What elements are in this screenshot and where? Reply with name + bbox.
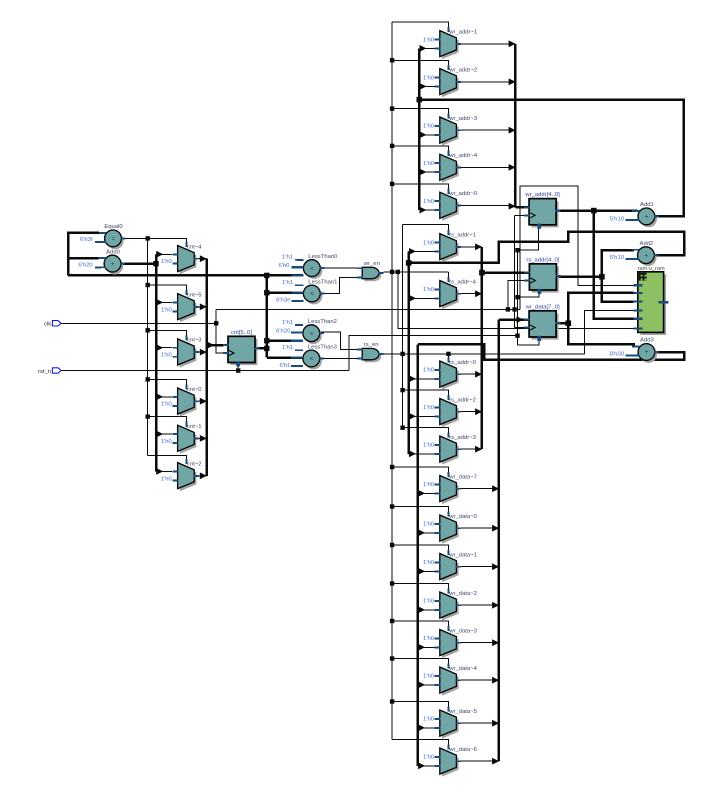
wire rs_addr Q to Add2 <box>602 250 634 276</box>
svg-text:wr_addr~3: wr_addr~3 <box>448 116 478 122</box>
mux wr_data~1 <box>423 550 477 582</box>
wire Add0 output <box>121 262 156 265</box>
wire wr_addr mux output <box>461 43 515 45</box>
wire rst to wr_data register <box>518 341 540 345</box>
junction rs_addr D <box>479 270 485 276</box>
wire rs_addr mux output <box>461 293 482 295</box>
wire wr_data select tap <box>392 621 448 630</box>
wire feed to wr_addr mux <box>419 134 435 136</box>
wire wr_addr select tap <box>392 146 448 154</box>
wire cnt mux output <box>199 400 207 402</box>
wire feed to wr_addr mux <box>419 47 435 49</box>
mux wr_addr~4 <box>423 151 478 183</box>
wire wr_addr output bus <box>514 44 517 208</box>
svg-text:1'h0: 1'h0 <box>423 717 435 723</box>
svg-text:1'h0: 1'h0 <box>423 636 435 642</box>
wire wr_addr~1 select <box>392 22 448 31</box>
wire feed to rs_addr mux <box>409 250 435 252</box>
wire data to ram <box>568 293 633 323</box>
svg-text:clk: clk <box>44 322 51 328</box>
mux cnt~0 <box>161 384 202 416</box>
wire wr_addr register D input <box>515 206 529 209</box>
wire wr_data select tap <box>392 507 448 516</box>
svg-text:rs_addr~0: rs_addr~0 <box>449 360 476 366</box>
gate rs_en <box>357 342 383 362</box>
svg-text:1'h0: 1'h0 <box>161 439 173 445</box>
wire wr_data mux output <box>461 527 499 529</box>
register wr_addr[4..0] <box>524 192 561 229</box>
wire wr_data mux output <box>461 604 499 606</box>
junction select trunk <box>146 236 150 240</box>
mux cnt~1 <box>161 422 202 454</box>
wire feed to wr_data mux <box>418 727 435 729</box>
svg-text:ram:u_ram: ram:u_ram <box>638 266 665 272</box>
svg-text:+: + <box>645 349 649 356</box>
svg-text:wr_data~1: wr_data~1 <box>448 552 477 558</box>
svg-text:LessThan1: LessThan1 <box>308 279 337 285</box>
ram output q <box>659 301 669 303</box>
mux wr_addr~1 <box>423 27 477 59</box>
wire Add2 feedback bus <box>407 251 410 453</box>
wire feed to wr_data mux <box>418 609 435 611</box>
mux cnt~2 <box>161 459 202 491</box>
wire rs_addr output bus <box>481 247 484 449</box>
svg-text:1'h0: 1'h0 <box>423 522 435 528</box>
wire wr_en output <box>383 271 448 273</box>
wire wr_data mux output <box>461 566 499 568</box>
register cnt[5..0] <box>223 330 260 367</box>
svg-text:1'h1: 1'h1 <box>282 320 293 326</box>
svg-text:=: = <box>111 236 115 243</box>
wire rs_addr register D input <box>482 271 530 274</box>
operator LessThan0 <box>291 254 338 279</box>
wire Add0 input <box>68 257 99 260</box>
svg-text:rst_n: rst_n <box>38 369 51 375</box>
mux rs_addr~1 <box>423 230 476 262</box>
svg-text:LessThan2: LessThan2 <box>308 319 337 325</box>
wire cnt feedback loop left <box>68 233 99 276</box>
wire cnt register D input <box>207 344 224 347</box>
svg-text:1'h1: 1'h1 <box>282 280 293 286</box>
wire Equal0 output to cnt mux selects <box>122 238 187 245</box>
wire feed to cnt mux <box>156 433 172 435</box>
wire cnt Q to LessThan3 <box>267 356 303 359</box>
mux wr_data~2 <box>423 588 477 620</box>
svg-text:wr_addr[4..0]: wr_addr[4..0] <box>524 192 560 198</box>
wire cnt output bus <box>205 259 208 476</box>
wire cnt select tap <box>148 285 187 294</box>
wire cnt Q bus vertical <box>266 275 269 357</box>
svg-text:1'h0: 1'h0 <box>423 161 435 167</box>
svg-text:cnt[5..0]: cnt[5..0] <box>231 330 252 336</box>
svg-text:rs_addr~2: rs_addr~2 <box>449 397 476 403</box>
wire rst to rs_addr register <box>518 294 540 298</box>
svg-text:6'h3f: 6'h3f <box>80 237 93 243</box>
mux rs_addr~0 <box>423 357 477 389</box>
wire wr_data select tap <box>392 702 448 711</box>
svg-text:rs_addr~1: rs_addr~1 <box>449 232 476 238</box>
wire rdaddress to ram <box>602 277 634 302</box>
wire cnt select tap <box>148 379 187 388</box>
svg-text:wr_data~7: wr_data~7 <box>448 474 477 480</box>
svg-text:cnt~2: cnt~2 <box>187 461 202 467</box>
wire wr_addr mux output <box>461 81 515 83</box>
operator Add0 <box>98 249 125 274</box>
junction rst cnt <box>236 368 240 372</box>
ram block ram:u_ram <box>633 266 668 335</box>
input port rst_n <box>38 368 61 375</box>
wire cnt Q rail <box>68 274 303 277</box>
junction rs_addr Q <box>599 274 605 280</box>
mux wr_addr~0 <box>423 189 478 221</box>
mux cnt~3 <box>161 335 202 367</box>
mux rs_addr~2 <box>423 395 476 427</box>
wire cnt register Q <box>255 347 266 350</box>
wire wr_data output bus <box>498 320 501 762</box>
wire cnt mux output <box>199 351 207 353</box>
svg-text:wr_en: wr_en <box>363 261 380 267</box>
wire rs_addr mux output <box>461 246 482 248</box>
wire Add1 feedback bus <box>418 48 421 210</box>
gate wr_en <box>357 261 383 281</box>
junction Add0 bus <box>153 261 158 266</box>
svg-text:cnt~5: cnt~5 <box>187 292 202 298</box>
svg-text:Equal0: Equal0 <box>104 224 123 230</box>
wire clk horizontal trunk <box>216 308 520 310</box>
svg-text:1'h0: 1'h0 <box>161 307 173 313</box>
wire feed to cnt mux <box>156 301 172 303</box>
svg-text:1'h0: 1'h0 <box>423 599 435 605</box>
svg-text:wr_addr~4: wr_addr~4 <box>448 153 478 159</box>
mux wr_addr~2 <box>423 65 477 97</box>
wire rs_en output / rden <box>383 353 584 355</box>
wire rst jog <box>349 336 517 371</box>
svg-text:rs_addr[4..0]: rs_addr[4..0] <box>526 257 559 263</box>
wire wr_addr Q to Add1 <box>556 209 636 212</box>
svg-text:Add1: Add1 <box>640 202 654 208</box>
wire rst to wr_addr register <box>518 229 539 251</box>
wire feed to wr_data mux <box>418 570 435 572</box>
wire Add3 feedback loop <box>418 344 684 359</box>
svg-text:1'h1: 1'h1 <box>282 345 293 351</box>
wire cnt mux output <box>199 475 207 477</box>
operator Add1 <box>632 202 659 227</box>
wire rst vertical trunk <box>517 250 519 345</box>
svg-text:6'h0: 6'h0 <box>278 263 290 269</box>
wire wr_data mux output <box>461 722 499 724</box>
wire clk to cnt register <box>216 309 223 353</box>
operator LessThan2 <box>291 319 337 344</box>
wire wr_en select trunk <box>391 22 393 739</box>
wire Add3 feedback bus <box>417 344 420 766</box>
register wr_data[7..0] <box>524 304 561 341</box>
wire clk to ram <box>520 186 633 309</box>
wire wr_data select tap <box>392 545 448 554</box>
svg-text:rs_en: rs_en <box>364 342 379 348</box>
svg-text:1'h0: 1'h0 <box>423 560 435 566</box>
svg-text:cnt~0: cnt~0 <box>187 387 202 393</box>
wire cnt select tap <box>148 417 187 426</box>
svg-text:<: < <box>310 356 314 363</box>
mux wr_data~4 <box>423 663 478 695</box>
svg-text:wr_data~6: wr_data~6 <box>448 747 477 753</box>
wire feed to wr_addr mux <box>419 171 435 173</box>
wire wr_data select tap <box>392 467 448 476</box>
svg-text:<: < <box>310 330 314 337</box>
wire LessThan1 to wr_en <box>320 277 357 293</box>
svg-text:5'h10: 5'h10 <box>610 255 625 261</box>
svg-text:5'h10: 5'h10 <box>610 216 625 222</box>
wire wr_addr select tap <box>392 60 448 68</box>
wire wr_data select tap <box>392 584 448 593</box>
wire feed to wr_addr mux <box>419 209 435 211</box>
wire clk rail <box>61 322 216 324</box>
svg-text:rs_addr~3: rs_addr~3 <box>449 435 476 441</box>
wire wr_addr mux output <box>461 129 515 131</box>
svg-text:cnt~4: cnt~4 <box>187 244 202 250</box>
wire rs_addr select tap <box>403 428 449 436</box>
wire cnt Q to LessThan2 <box>267 339 303 342</box>
wire feed to wr_addr mux <box>419 85 435 87</box>
wire feed to rs_addr mux <box>409 378 435 380</box>
wire feed to wr_data mux <box>418 646 435 648</box>
svg-text:Add2: Add2 <box>640 241 654 247</box>
wire feed to cnt mux <box>156 396 172 398</box>
svg-text:+: + <box>111 261 115 268</box>
svg-text:wr_data~4: wr_data~4 <box>448 666 477 672</box>
svg-text:Add0: Add0 <box>106 249 120 255</box>
junction clk <box>214 321 218 325</box>
wire rst to cnt register <box>237 366 239 371</box>
input port clk <box>44 321 61 328</box>
wire Add2 feedback loop <box>409 232 685 263</box>
svg-text:1'h0: 1'h0 <box>161 476 173 482</box>
wire feed to rs_addr mux <box>409 415 435 417</box>
svg-text:1'h1: 1'h1 <box>282 255 293 261</box>
wire wr_data Q <box>556 322 568 325</box>
wire wr_data mux output <box>461 488 499 490</box>
wire wr_addr select tap <box>392 184 448 192</box>
junction Add2 bus <box>406 260 412 266</box>
mux wr_data~3 <box>423 626 478 658</box>
svg-text:1'h0: 1'h0 <box>161 353 173 359</box>
svg-text:wr_data~0: wr_data~0 <box>448 514 477 520</box>
junction rst trunk <box>515 334 519 338</box>
mux wr_data~7 <box>423 472 477 504</box>
wire clk to wr_addr and wr_data registers <box>514 215 516 327</box>
wire wr_addr~0 output <box>461 204 514 206</box>
svg-text:1'h0: 1'h0 <box>423 199 435 205</box>
mux wr_addr~3 <box>423 113 478 145</box>
wire feed to wr_data mux <box>418 532 435 534</box>
wire rs_addr select tap <box>403 390 449 398</box>
svg-text:6'h20: 6'h20 <box>276 328 291 334</box>
mux cnt~4 <box>161 242 202 274</box>
svg-text:1'h0: 1'h0 <box>423 287 435 293</box>
junction cnt Q rail <box>264 273 269 278</box>
svg-text:6'h1: 6'h1 <box>279 363 290 369</box>
svg-text:8'h00: 8'h00 <box>610 352 625 358</box>
operator LessThan3 <box>291 344 338 369</box>
svg-text:1'h0: 1'h0 <box>423 755 435 761</box>
wire rs_addr~4 select <box>448 272 450 281</box>
wire feed to cnt mux <box>156 347 172 349</box>
wire wr_data register D input <box>499 318 529 321</box>
svg-text:wr_addr~2: wr_addr~2 <box>448 67 477 73</box>
mux wr_data~0 <box>423 511 478 543</box>
wire cnt mux output <box>199 306 207 308</box>
wire cnt Q to LessThan1 <box>267 291 303 294</box>
wire wraddress to ram <box>594 211 634 319</box>
wire LessThan0 to wr_en <box>320 267 357 269</box>
wire LessThan2 to rs_en <box>320 332 358 350</box>
svg-text:+: + <box>644 252 648 259</box>
wire rs_en select trunk <box>402 224 404 427</box>
wire wr_addr mux output <box>461 166 515 168</box>
svg-text:1'h0: 1'h0 <box>161 402 173 408</box>
svg-text:<: < <box>310 265 314 272</box>
wire rst_n rail <box>61 370 349 372</box>
wire wr_data select tap <box>392 740 448 749</box>
wire wr_data select tap <box>392 659 448 668</box>
wire cnt mux output <box>199 258 207 260</box>
mux wr_data~5 <box>423 706 478 738</box>
operator Add2 <box>632 241 659 266</box>
wire feed to cnt mux <box>156 253 172 255</box>
svg-text:wr_data~5: wr_data~5 <box>448 709 477 715</box>
wire Add1 feedback loop <box>419 100 684 217</box>
mux cnt~5 <box>161 290 202 322</box>
junction Add1 bus <box>417 97 423 103</box>
svg-text:1'h0: 1'h0 <box>423 75 435 81</box>
wire wr_data mux output <box>461 642 499 644</box>
wire feed to rs_addr mux <box>409 453 435 455</box>
wire cnt select tap <box>148 456 187 463</box>
wire rs_addr mux output <box>461 373 482 375</box>
wire wr_data Q to Add3 <box>568 323 634 346</box>
svg-text:wr_data~2: wr_data~2 <box>448 591 477 597</box>
svg-text:cnt~1: cnt~1 <box>187 424 202 430</box>
svg-text:wr_data~3: wr_data~3 <box>448 628 477 634</box>
svg-text:1'h0: 1'h0 <box>423 240 435 246</box>
wire feed to wr_data mux <box>418 684 435 686</box>
wire rs_addr~0 select <box>448 354 450 361</box>
svg-text:1'h0: 1'h0 <box>423 674 435 680</box>
svg-text:6'h3e: 6'h3e <box>276 298 291 304</box>
svg-text:rs_addr~4: rs_addr~4 <box>449 279 476 285</box>
svg-text:wr_addr~0: wr_addr~0 <box>448 191 478 197</box>
svg-text:1'h0: 1'h0 <box>423 443 435 449</box>
wire wren to ram <box>398 272 634 329</box>
svg-text:1'h0: 1'h0 <box>423 37 435 43</box>
svg-text:1'h0: 1'h0 <box>423 124 435 130</box>
junction cnt Q <box>264 346 269 351</box>
wire wr_data mux output <box>461 679 499 681</box>
wire Add0 result bus <box>155 254 158 471</box>
wire rs_addr Q <box>557 275 602 278</box>
svg-text:cnt~3: cnt~3 <box>187 338 202 344</box>
operator Equal0 <box>99 224 126 249</box>
svg-text:wr_addr~1: wr_addr~1 <box>448 29 477 35</box>
operator Add3 <box>632 338 659 363</box>
svg-text:1'h0: 1'h0 <box>423 368 435 374</box>
wire clk to rs_addr register <box>508 281 530 310</box>
mux rs_addr~4 <box>423 277 477 309</box>
wire cnt select trunk <box>147 238 149 455</box>
wire cnt mux output <box>199 437 207 439</box>
svg-text:LessThan0: LessThan0 <box>308 254 338 260</box>
svg-text:LessThan3: LessThan3 <box>308 344 338 350</box>
svg-text:1'h0: 1'h0 <box>161 259 173 265</box>
wire rs_addr mux output <box>461 448 482 450</box>
wire rden to ram <box>585 310 634 354</box>
svg-text:1'h0: 1'h0 <box>423 405 435 411</box>
svg-text:wr_data[7..0]: wr_data[7..0] <box>525 304 560 310</box>
svg-text:+: + <box>645 214 649 221</box>
junction wr_data Q <box>566 320 572 326</box>
wire LessThan3 to rs_en <box>320 358 358 360</box>
svg-text:6'h20: 6'h20 <box>78 263 93 269</box>
svg-text:1'h0: 1'h0 <box>423 482 435 488</box>
mux rs_addr~3 <box>423 432 477 464</box>
wire rs_addr mux output <box>461 411 482 413</box>
svg-text:<: < <box>310 291 314 298</box>
wire cnt select tap <box>148 330 187 339</box>
mux wr_data~6 <box>423 744 478 776</box>
operator LessThan1 <box>291 279 337 304</box>
wire feed to rs_addr mux <box>409 297 435 299</box>
wire wr_addr select tap <box>392 109 448 117</box>
svg-text:Add3: Add3 <box>640 338 654 344</box>
wire rs_addr~1 select <box>403 224 449 233</box>
junction wr_addr Q <box>591 208 597 214</box>
wire feed to wr_data mux <box>418 765 435 767</box>
wire feed to cnt mux <box>156 470 172 472</box>
wire wr_data mux output <box>461 760 499 762</box>
register rs_addr[4..0] <box>524 257 561 294</box>
wire feed to wr_data mux <box>418 492 435 494</box>
